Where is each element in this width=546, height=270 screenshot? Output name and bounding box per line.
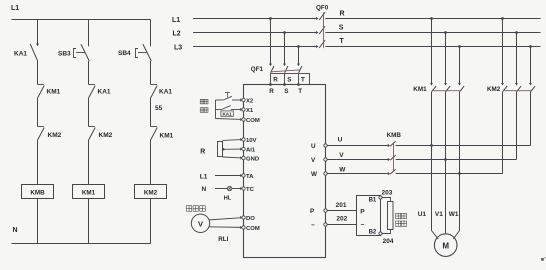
- svg-text:202: 202: [336, 216, 347, 223]
- svg-text:P: P: [310, 208, 314, 215]
- svg-text:201: 201: [336, 202, 347, 209]
- svg-text:KMB: KMB: [30, 190, 45, 197]
- svg-text:10V: 10V: [246, 138, 257, 144]
- svg-text:KM2: KM2: [48, 132, 62, 139]
- svg-text:V: V: [198, 219, 203, 228]
- svg-text:L1: L1: [200, 173, 208, 180]
- svg-text:HL: HL: [224, 195, 232, 201]
- svg-text:B1: B1: [369, 197, 377, 203]
- svg-text:TA: TA: [246, 174, 254, 180]
- svg-text:U1: U1: [418, 211, 427, 218]
- svg-text:RLI: RLI: [218, 236, 228, 243]
- svg-text:GND: GND: [246, 157, 259, 163]
- svg-text:N: N: [202, 186, 207, 193]
- svg-text:V: V: [339, 152, 344, 159]
- svg-text:T: T: [298, 88, 302, 95]
- svg-text:KM2: KM2: [487, 86, 501, 93]
- svg-text:203: 203: [382, 190, 393, 197]
- svg-text:L3: L3: [174, 44, 182, 51]
- svg-text:KM2: KM2: [144, 190, 158, 197]
- svg-text:COM: COM: [246, 118, 260, 124]
- svg-text:QF1: QF1: [251, 66, 264, 73]
- svg-text:T: T: [340, 38, 345, 45]
- svg-text:KM1: KM1: [413, 86, 427, 93]
- svg-text:S: S: [339, 24, 344, 31]
- svg-text:L2: L2: [173, 30, 181, 37]
- svg-text:QF0: QF0: [316, 4, 329, 11]
- svg-text:L1: L1: [11, 5, 19, 12]
- svg-text:204: 204: [383, 238, 394, 245]
- svg-text:55: 55: [155, 105, 163, 112]
- svg-text:TC: TC: [246, 187, 255, 193]
- svg-text:−: −: [361, 222, 365, 229]
- svg-text:N: N: [13, 227, 18, 234]
- svg-text:U: U: [338, 136, 343, 143]
- svg-text:KMB: KMB: [387, 132, 402, 139]
- svg-text:R: R: [273, 77, 278, 84]
- svg-text:S: S: [284, 88, 288, 95]
- svg-text:X1: X1: [246, 108, 254, 114]
- svg-text:AI1: AI1: [246, 148, 256, 154]
- svg-text:SB4: SB4: [118, 50, 131, 57]
- svg-text:−: −: [311, 222, 315, 229]
- svg-text:W: W: [311, 171, 317, 178]
- svg-text:M: M: [442, 241, 449, 250]
- svg-text:KM1: KM1: [160, 132, 174, 139]
- svg-text:COM: COM: [246, 226, 260, 232]
- svg-text:P: P: [360, 209, 365, 216]
- svg-text:W: W: [339, 166, 346, 173]
- svg-text:L1: L1: [172, 17, 180, 24]
- svg-text:B2: B2: [369, 230, 377, 236]
- svg-text:W1: W1: [449, 211, 459, 218]
- svg-text:KA1: KA1: [222, 112, 232, 117]
- svg-text:KM1: KM1: [47, 88, 61, 95]
- svg-text:KM2: KM2: [99, 132, 113, 139]
- svg-text:R: R: [200, 148, 205, 155]
- svg-text:U: U: [311, 143, 316, 150]
- svg-text:T: T: [301, 77, 305, 84]
- svg-text:KM1: KM1: [82, 190, 96, 197]
- svg-text:KA1: KA1: [159, 88, 172, 95]
- svg-text:S: S: [287, 77, 291, 84]
- svg-text:SB3: SB3: [58, 50, 71, 57]
- svg-text:R: R: [269, 88, 274, 95]
- svg-text:DO: DO: [246, 216, 255, 222]
- svg-text:R: R: [340, 10, 345, 17]
- svg-text:X2: X2: [246, 99, 254, 105]
- svg-text:V1: V1: [435, 211, 443, 218]
- svg-text:KA1: KA1: [14, 51, 27, 58]
- svg-text:KA1: KA1: [98, 88, 111, 95]
